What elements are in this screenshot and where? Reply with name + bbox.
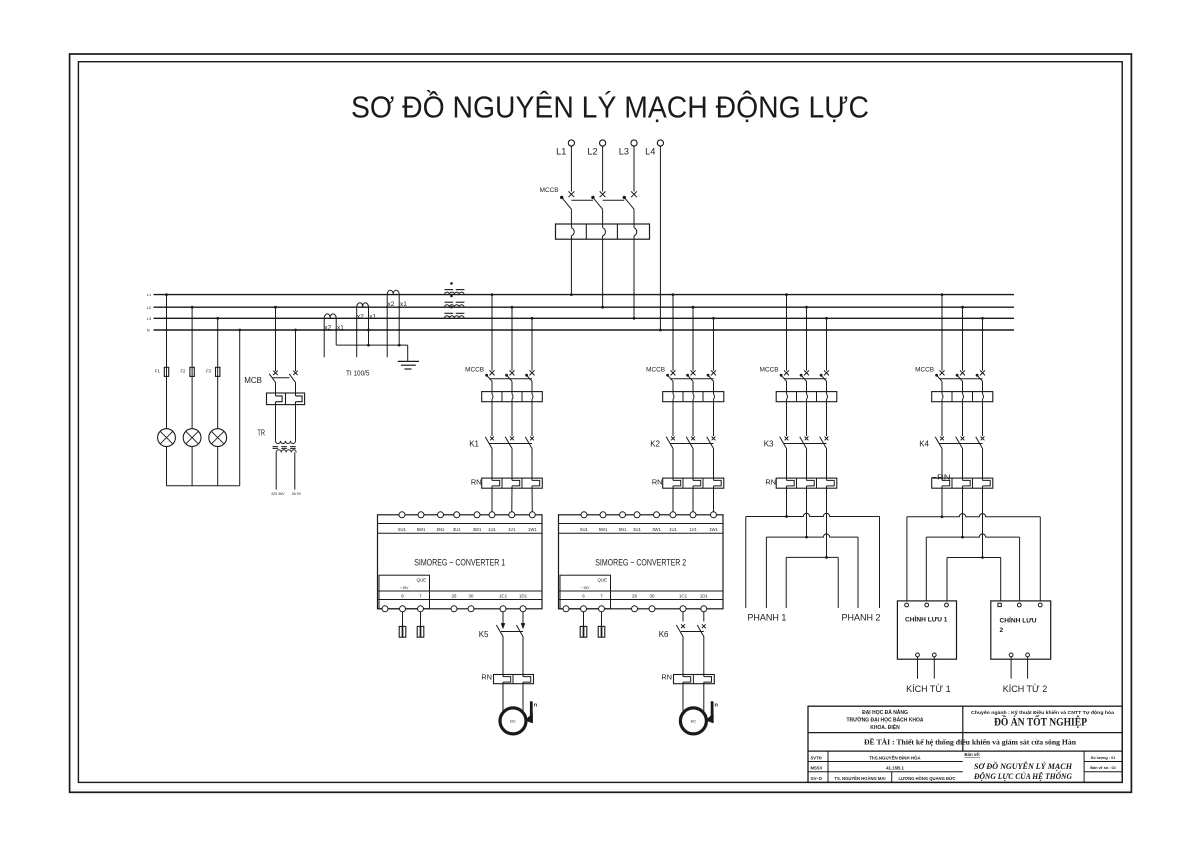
border frame inner (78, 62, 1122, 783)
contactor K5 contact (516, 625, 523, 637)
svg-text:Bản vẽ:: Bản vẽ: (964, 752, 980, 757)
contactor K2 contact (712, 437, 716, 441)
title block row line 2 (808, 750, 1122, 752)
terminal 5N1 U2 (620, 512, 626, 518)
svg-text:1V1: 1V1 (508, 527, 516, 532)
svg-text:3U1: 3U1 (453, 527, 461, 532)
svg-text:L3: L3 (147, 316, 151, 321)
motor M K6 (680, 708, 706, 734)
node crossing (323, 329, 325, 331)
wire TR pri left (275, 402, 277, 441)
node crossing (165, 317, 167, 319)
terminal L2 (600, 140, 606, 146)
terminal CL1 top (945, 603, 949, 607)
node L4 tap (659, 329, 662, 332)
svg-text:MCCB: MCCB (540, 187, 559, 194)
node crossing (712, 329, 714, 331)
wire K6 to motor (703, 682, 705, 712)
svg-text:ĐẠI HỌC ĐÀ NẴNG: ĐẠI HỌC ĐÀ NẴNG (862, 709, 908, 716)
node cross1 K4 (941, 515, 944, 518)
node feed tap 2 (601, 306, 604, 309)
VT core phase 1 (445, 289, 454, 291)
terminal CL2 top sq (998, 603, 1001, 606)
wire K6 to motor (682, 682, 684, 712)
terminal CL2 bottom (1009, 653, 1013, 657)
wire K1 contact in (491, 399, 493, 436)
svg-text:5U1: 5U1 (398, 527, 406, 532)
CT TI1 wire x2 (323, 318, 325, 357)
wire K1 to RN (531, 449, 533, 480)
node lamp return tap (238, 329, 241, 332)
terminal CL2 bottom (1026, 653, 1030, 657)
svg-text:SIMOREG − CONVERTER 1: SIMOREG − CONVERTER 1 (414, 557, 505, 568)
node crossing (274, 329, 276, 331)
terminal 3W1 U1 (474, 512, 480, 518)
wire K5 to motor (502, 682, 504, 712)
node crossing (633, 306, 635, 308)
terminal L1 (568, 140, 574, 146)
transformer TR primary (276, 441, 296, 444)
wire MCCB K1 out (531, 381, 533, 394)
wire branch K1 pole 3 drop (531, 318, 533, 370)
wire brake cross line1 (746, 513, 880, 516)
linkage K4 (939, 443, 982, 445)
node crossing (191, 329, 193, 331)
wire MCCB K2 out (672, 381, 674, 394)
linkage K2 (670, 443, 713, 445)
terminal bottom U2 aux (563, 606, 569, 612)
wire branch K4 pole 1 drop (941, 295, 943, 371)
node CT junction 2 (398, 344, 401, 347)
wire K2 to RN (672, 449, 674, 480)
wire MCCB main pole 2 mid (602, 209, 604, 228)
breaker MCCB K3 pole (804, 370, 809, 375)
transformer TR core (273, 447, 299, 449)
node crossing (659, 306, 661, 308)
svg-text:QUE: QUE (598, 577, 608, 582)
svg-text:TS. NGUYỄN HOÀNG MAI: TS. NGUYỄN HOÀNG MAI (834, 776, 885, 781)
terminal 1U1 U1 (489, 512, 495, 518)
wire K2 contact in (713, 399, 715, 436)
wire branch K3 pole 2 drop (806, 307, 808, 370)
terminal 1V1 U2 (690, 512, 696, 518)
node crossing (805, 317, 807, 319)
svg-text:5N1: 5N1 (437, 527, 445, 532)
converter U1 top rail (378, 523, 543, 525)
wire PHANH2 drop3 (879, 517, 881, 609)
svg-text:30: 30 (469, 594, 474, 599)
terminal 1W1 U2 (711, 512, 717, 518)
svg-text:5W1: 5W1 (599, 527, 608, 532)
rectifier CL1 box (897, 601, 956, 659)
wire MCCB K4 out (941, 381, 943, 394)
wire branch K1 pole 2 drop (511, 307, 513, 370)
node crossing (961, 317, 963, 319)
node crossing (511, 329, 513, 331)
svg-text:K1: K1 (469, 439, 479, 448)
node crossing (659, 294, 661, 296)
linkage MCCB K4 (939, 378, 982, 380)
wire K1 contact in (511, 399, 513, 436)
node crossing (961, 329, 963, 331)
svg-text:ĐỀ TÀI : Thiết kế hệ thống điề: ĐỀ TÀI : Thiết kế hệ thống điều khiển và… (864, 737, 1077, 747)
node crossing (356, 317, 358, 319)
contactor K2 contact (691, 437, 695, 441)
wire K4 phase1 to cross (941, 486, 943, 517)
svg-text:MCCB: MCCB (915, 367, 934, 374)
svg-text:MCCB: MCCB (465, 367, 484, 374)
wire brake cross line2 (766, 534, 858, 537)
wire branch K2 pole 3 drop (713, 318, 715, 370)
svg-text:5U1: 5U1 (580, 527, 588, 532)
terminal bottom U1 1C1 (500, 606, 506, 612)
wire K6 in (682, 612, 684, 622)
terminal 3W1 U2 (654, 512, 660, 518)
svg-text:26: 26 (452, 594, 457, 599)
wire MCCB K1 out (491, 381, 493, 394)
svg-text:RN: RN (652, 478, 663, 487)
wire PHANH1 drop (765, 537, 767, 608)
wire MCB pole2 mid (295, 382, 297, 396)
svg-text:∼15V: ∼15V (581, 586, 591, 590)
node crossing (356, 329, 358, 331)
MCCB K2 trip box (663, 392, 724, 402)
VT winding phase 2 (445, 305, 465, 308)
node crossing (785, 317, 787, 319)
wire MCCB main pole 3 out (633, 236, 635, 318)
node lamp tap 1 (165, 293, 168, 296)
wire lamp drop 1 (166, 295, 168, 429)
wire rect cross line3 (947, 557, 1001, 559)
wire CL2 drop1 (1000, 558, 1002, 602)
svg-text:30: 30 (650, 594, 655, 599)
svg-text:Số lượng : 01: Số lượng : 01 (1091, 756, 1116, 760)
MCB trip box (267, 393, 305, 405)
wire K3 phase3 to cross (826, 486, 828, 558)
node branch K2 tap 1 (672, 293, 675, 296)
terminal bottom U2 1D1 (701, 606, 707, 612)
svg-text:L1: L1 (147, 292, 151, 297)
wire MCCB main pole 2 out (602, 236, 604, 307)
wire K5 in arrow (502, 612, 504, 624)
wire K6 to RN (703, 637, 705, 677)
svg-text:F2: F2 (181, 368, 187, 373)
node lamp tap 2 (191, 306, 194, 309)
svg-text:RN: RN (661, 673, 672, 682)
node crossing (398, 306, 400, 308)
node crossing (367, 317, 369, 319)
wire K4 contact in (941, 399, 943, 436)
fuse field supply (402, 612, 404, 626)
terminal CL2 top (1017, 603, 1021, 607)
svg-text:1W1: 1W1 (528, 527, 537, 532)
wire K3 to RN (786, 449, 788, 480)
lamp H3 (209, 429, 227, 447)
svg-text:1C1: 1C1 (499, 594, 508, 599)
wire MCCB K3 out (786, 381, 788, 394)
wire MCCB K4 out (982, 381, 984, 394)
svg-text:K4: K4 (919, 439, 929, 448)
MCCB K3 trip box (776, 392, 837, 402)
node crossing (398, 329, 400, 331)
wire CL2 drop2 (1019, 537, 1021, 601)
node cross2 K4 (961, 536, 964, 539)
svg-text:2: 2 (1000, 627, 1004, 634)
terminal bottom U1 1D1 (520, 606, 526, 612)
node crossing (941, 317, 943, 319)
breaker MCCB K4 pole (980, 370, 985, 375)
lamp H2 (183, 429, 201, 447)
wire bus N (154, 329, 1015, 331)
svg-text:L4: L4 (645, 147, 655, 157)
wire MCCB K3 out (806, 381, 808, 394)
relay RN K2 box (663, 478, 724, 488)
wire K4 to RN (982, 449, 984, 480)
contactor K3 contact (785, 437, 789, 441)
wire KICH TU 1 (933, 657, 935, 679)
wire PHANH1 drop3 (785, 557, 787, 608)
converter U1 aux box (379, 575, 430, 609)
MCCB main trip box (556, 224, 650, 239)
terminal CL1 top (925, 603, 929, 607)
terminal bottom U2 26 (632, 606, 638, 612)
wire branch K3 pole 3 drop (826, 318, 828, 370)
svg-text:QUE: QUE (417, 577, 427, 582)
node crossing (672, 306, 674, 308)
CT TI2 wire x1 (368, 307, 370, 345)
wire MCCB K4 out (962, 381, 964, 394)
svg-text:41.15Đ.1: 41.15Đ.1 (886, 766, 904, 771)
wire K6 to RN (682, 637, 684, 677)
wire bus L3 (154, 317, 1015, 319)
breaker MCCB K1 pole (510, 370, 515, 375)
wire bus L1 (154, 294, 1015, 296)
node branch K4 tap 3 (981, 317, 984, 320)
wire lamp bottom 1 (166, 447, 168, 486)
contact K6 X (702, 624, 706, 628)
wire bus L2 (154, 306, 1015, 308)
CT TI2 winding (357, 303, 369, 307)
svg-text:CHỈNH LƯU: CHỈNH LƯU (1000, 616, 1037, 625)
wire lamp drop 2 (191, 307, 193, 429)
svg-text:x1: x1 (369, 313, 376, 320)
node crossing (491, 317, 493, 319)
terminal CL1 top (905, 603, 909, 607)
fuse F3 (216, 367, 220, 376)
wire CL2 drop3 (1039, 517, 1041, 601)
fuse field supply (420, 612, 422, 626)
svg-text:L3: L3 (619, 147, 629, 157)
node branch K1 tap 1 (491, 293, 494, 296)
relay RN K6 box (674, 675, 715, 684)
wire rect cross line2 (926, 534, 1019, 537)
converter U2 top rail (559, 523, 724, 525)
breaker MCCB main pole 1 (569, 191, 575, 197)
relay RN K1 box (482, 478, 543, 488)
svg-text:1W1: 1W1 (709, 527, 718, 532)
svg-text:ThS.NGUYỄN ĐÌNH HÒA: ThS.NGUYỄN ĐÌNH HÒA (869, 755, 921, 760)
relay RN K5 box (494, 675, 534, 684)
node branch K3 tap 1 (785, 293, 788, 296)
title block row line 4 (808, 771, 963, 773)
svg-text:GV−D: GV−D (811, 776, 823, 781)
node CT N junction (367, 329, 370, 332)
svg-text:LƯƠNG HỒNG QUANG ĐỨC: LƯƠNG HỒNG QUANG ĐỨC (898, 776, 955, 781)
svg-text:K6: K6 (659, 630, 669, 639)
node feed tap 3 (633, 317, 636, 320)
title block col c (1083, 751, 1085, 782)
node crossing (191, 317, 193, 319)
svg-text:ĐC: ĐC (691, 719, 697, 724)
node cross2 K3 (805, 536, 808, 539)
svg-text:ĐỒ ÁN TỐT NGHIỆP: ĐỒ ÁN TỐT NGHIỆP (994, 716, 1087, 729)
svg-text:220 36V: 220 36V (271, 492, 285, 496)
svg-text:SƠ ĐỒ NGUYÊN LÝ MẠCH ĐỘNG LỰC: SƠ ĐỒ NGUYÊN LÝ MẠCH ĐỘNG LỰC (351, 89, 869, 125)
wire K5 to RN (522, 637, 524, 677)
svg-text:1U1: 1U1 (488, 527, 496, 532)
wire MCCB K2 out (692, 381, 694, 394)
terminal bottom U1 26 (451, 606, 457, 612)
svg-text:KÍCH TỪ 2: KÍCH TỪ 2 (1003, 684, 1048, 694)
terminal bottom U2 30 (649, 606, 655, 612)
wire K3 phase2 to cross (806, 486, 808, 537)
breaker MCCB main pole 2 (600, 191, 606, 197)
node branch K2 tap 2 (692, 306, 695, 309)
svg-text:MSSV: MSSV (811, 766, 823, 771)
svg-text:Bản vẽ số : 02: Bản vẽ số : 02 (1090, 766, 1116, 770)
svg-text:MCCB: MCCB (646, 367, 665, 374)
linkage K5 (501, 631, 523, 633)
svg-text:K5: K5 (479, 630, 489, 639)
wire KICH TU 2 (1027, 657, 1029, 679)
wire MCB pole1 in (275, 307, 277, 371)
node crossing (692, 317, 694, 319)
breaker MCCB K3 pole (824, 370, 829, 375)
wire K3 phase1 to cross (786, 486, 788, 517)
svg-text:SVTH: SVTH (811, 755, 822, 760)
wire K2 to converter 3 (713, 486, 715, 512)
breaker MCCB K2 pole (671, 370, 676, 375)
svg-text:PHANH 2: PHANH 2 (842, 613, 881, 623)
breaker MCCB K2 pole (691, 370, 696, 375)
svg-text:1V1: 1V1 (689, 527, 697, 532)
terminal bottom U2 6 (581, 606, 587, 612)
wire L3 feed in (633, 146, 635, 191)
svg-text:K2: K2 (650, 439, 660, 448)
contactor K3 contact (825, 437, 829, 441)
speed arrow K5 (530, 701, 533, 722)
contactor K4 contact (981, 437, 985, 441)
wire L2 feed in (602, 146, 604, 191)
terminal L3 (631, 140, 637, 146)
wire KICH TU 2 (1010, 657, 1012, 679)
contactor K1 contact (490, 437, 494, 441)
svg-text:RN: RN (481, 673, 492, 682)
wire K2 to RN (692, 449, 694, 480)
converter U2 bottom rail (559, 590, 724, 592)
terminal bottom U2 1C1 (680, 606, 686, 612)
contact K6 X (681, 624, 685, 628)
node crossing (165, 329, 167, 331)
svg-text:ĐỘNG LỰC CỦA HỆ THỐNG: ĐỘNG LỰC CỦA HỆ THỐNG (973, 771, 1072, 781)
wire CL1 drop2 (925, 537, 927, 601)
node crossing (491, 306, 493, 308)
svg-text:SƠ ĐỒ NGUYÊN LÝ MẠCH: SƠ ĐỒ NGUYÊN LÝ MẠCH (974, 761, 1073, 771)
converter U1 bottom rail (378, 590, 543, 592)
terminal CL2 top (1038, 603, 1042, 607)
terminal 5W1 U1 (418, 512, 424, 518)
wire branch K2 pole 1 drop (672, 295, 674, 371)
wire lamp bottom 2 (191, 447, 193, 486)
svg-text:x1: x1 (337, 325, 344, 332)
node crossing (785, 329, 787, 331)
lamp H1 (158, 429, 176, 447)
linkage MCCB K3 (784, 378, 827, 380)
linkage MCCB main (571, 199, 593, 201)
wire brake cross line3 (786, 556, 838, 558)
wire K4 to RN (962, 449, 964, 480)
svg-text:x2: x2 (388, 301, 395, 308)
wire branch K3 pole 1 drop (786, 295, 788, 371)
wire KICH TU 1 (917, 657, 919, 679)
breaker MCCB K1 pole (490, 370, 495, 375)
node cross3 K3 (825, 556, 828, 559)
converter U1 box (378, 515, 543, 609)
wire K4 contact in (982, 399, 984, 436)
svg-text:3U1: 3U1 (633, 527, 641, 532)
terminal bottom U1 6 (400, 606, 406, 612)
svg-text:TRƯỜNG ĐẠI HỌC BÁCH KHOA: TRƯỜNG ĐẠI HỌC BÁCH KHOA (846, 715, 923, 723)
wire CT common (336, 344, 408, 346)
VT core phase 2 (445, 301, 454, 303)
linkage MCCB K1 (489, 378, 532, 380)
svg-text:x2: x2 (357, 313, 364, 320)
wire TR sec left (275, 452, 277, 489)
wire K1 to RN (511, 449, 513, 480)
node cross1 K3 (785, 515, 788, 518)
svg-text:K3: K3 (764, 439, 774, 448)
node crossing (531, 329, 533, 331)
svg-text:1U1: 1U1 (669, 527, 677, 532)
breaker MCB (273, 371, 277, 375)
node branch K1 tap 2 (511, 306, 514, 309)
node crossing (386, 317, 388, 319)
title block col line top (962, 706, 964, 751)
border frame outer (70, 54, 1132, 792)
terminal CL1 bottom (932, 653, 936, 657)
CT TI2 wire x2 (356, 307, 358, 357)
svg-text:5W1: 5W1 (417, 527, 426, 532)
wire K1 to converter 3 (531, 486, 533, 512)
wire K6 in (703, 612, 705, 622)
node crossing (217, 329, 219, 331)
svg-text:1D1: 1D1 (519, 594, 528, 599)
node branch K4 tap 2 (961, 306, 964, 309)
terminal 5U1 U1 (399, 512, 405, 518)
wire K5 to motor (522, 682, 524, 712)
svg-text:PHANH 1: PHANH 1 (747, 613, 786, 623)
wire MCCB K2 out (713, 381, 715, 394)
node crossing (941, 329, 943, 331)
wire PHANH2 drop1 (837, 557, 839, 608)
fuse field supply (583, 612, 585, 626)
node crossing (672, 317, 674, 319)
fuse F1 (164, 367, 168, 376)
node crossing (659, 317, 661, 319)
terminal 5U1 U2 (581, 512, 587, 518)
svg-text:RN: RN (471, 478, 482, 487)
wire lamp return (167, 485, 240, 487)
